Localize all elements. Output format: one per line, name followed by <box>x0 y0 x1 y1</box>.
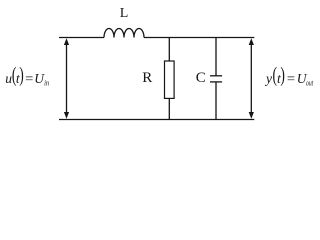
svg-text:in: in <box>44 77 49 87</box>
wire: bottom rail <box>59 119 254 121</box>
capacitor C bottom lead wire <box>215 82 217 120</box>
svg-text:=: = <box>287 71 295 86</box>
label R <box>142 70 152 86</box>
capacitor C plates <box>210 76 222 82</box>
label C <box>196 70 206 86</box>
svg-text:): ) <box>19 62 24 87</box>
svg-text:): ) <box>280 62 285 87</box>
capacitor C branch: top lead wire <box>215 38 217 76</box>
inductor L <box>104 28 144 37</box>
resistor R bottom lead wire <box>168 98 170 119</box>
label L <box>120 6 129 21</box>
label y(t)=U_out <box>264 62 314 87</box>
wire: top rail left segment <box>59 37 104 39</box>
svg-text:L: L <box>120 6 129 21</box>
voltage arrow y(t) (right, double-headed) <box>249 38 254 119</box>
resistor R body <box>165 61 175 98</box>
svg-text:y: y <box>264 71 272 86</box>
voltage arrow u(t) (left, double-headed) <box>64 38 69 119</box>
svg-text:C: C <box>196 70 206 86</box>
svg-text:out: out <box>306 77 314 87</box>
wire: top rail right segment <box>144 37 254 39</box>
resistor R branch: top lead wire <box>168 38 170 62</box>
svg-text:=: = <box>25 71 33 86</box>
svg-text:R: R <box>142 70 152 86</box>
label u(t)=U_in <box>5 62 49 87</box>
